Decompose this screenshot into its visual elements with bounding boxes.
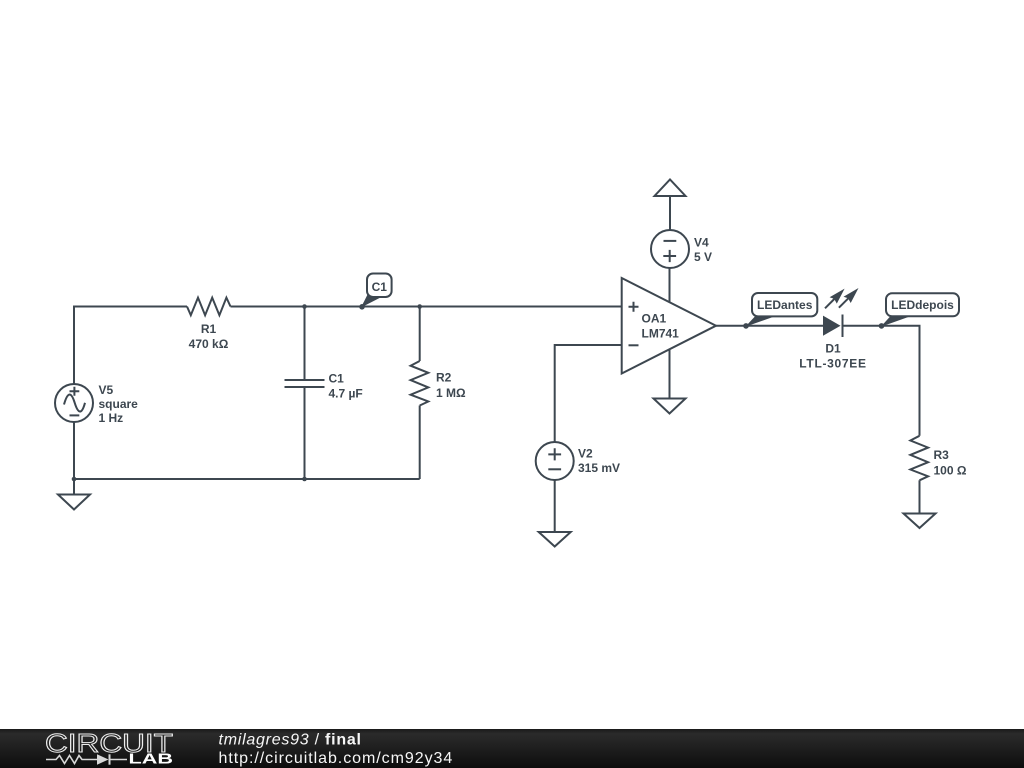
net flag C1 box (367, 274, 392, 298)
capacitor C1 top lead (304, 307, 306, 380)
net flag LEDdepois node dot (879, 323, 885, 329)
svg-text:square: square (99, 397, 139, 411)
svg-text:LEDantes: LEDantes (757, 298, 813, 312)
wire V5 bottom (73, 422, 75, 479)
LED D1 triangle (823, 316, 841, 336)
ground below V2 (539, 532, 571, 547)
wire V5 top to R1 (74, 307, 187, 385)
capacitor C1 bottom lead (304, 388, 306, 479)
resistor R3 (910, 436, 928, 481)
svg-text:315 mV: 315 mV (578, 461, 620, 475)
node junction dot R2 top (417, 304, 422, 309)
svg-text:470 kΩ: 470 kΩ (189, 337, 229, 351)
LED light arrow 2 (839, 298, 849, 308)
resistor R2 top lead (419, 307, 421, 362)
svg-text:LAB: LAB (129, 751, 174, 768)
voltage source V4 (651, 230, 689, 268)
ground below V5 (73, 479, 75, 495)
svg-text:http://circuitlab.com/cm92y34: http://circuitlab.com/cm92y34 (219, 750, 454, 767)
op-amp - input marker (629, 344, 639, 346)
wire R1 to op-amp + input (231, 306, 622, 308)
svg-text:LTL-307EE: LTL-307EE (799, 357, 866, 371)
capacitor C1 plates (285, 380, 325, 387)
voltage source V5 (55, 384, 93, 422)
svg-text:1 Hz: 1 Hz (99, 411, 124, 425)
resistor R2 bottom lead (419, 406, 421, 480)
footer logo resistor-diode glyph (46, 756, 127, 764)
V4 power stem into op-amp (669, 268, 671, 303)
net flag LEDdepois tail (881, 315, 909, 327)
net flag C1 tail (361, 294, 380, 308)
svg-text:tmilagres93 / final: tmilagres93 / final (219, 732, 362, 749)
voltage source V2 (536, 442, 574, 480)
svg-text:5 V: 5 V (694, 250, 712, 264)
svg-text:V5: V5 (99, 383, 114, 397)
net flag LEDantes box (752, 293, 817, 316)
resistor R1 (187, 298, 231, 316)
ground below op-amp (654, 399, 686, 414)
net flag C1 node dot (359, 304, 365, 310)
wire LED cathode to R3 (843, 326, 920, 436)
net flag LEDdepois box (886, 293, 959, 316)
power flag arrow above V4 (655, 180, 686, 197)
svg-text:C1: C1 (329, 372, 345, 386)
wire - input to V2 (555, 345, 622, 442)
resistor R2 (411, 361, 429, 406)
node junction dot V5 bottom (72, 477, 77, 482)
wire V2 to ground (554, 480, 556, 532)
svg-text:100 Ω: 100 Ω (934, 464, 967, 478)
svg-text:V4: V4 (694, 236, 709, 250)
svg-text:R3: R3 (934, 448, 950, 462)
svg-text:OA1: OA1 (642, 312, 667, 326)
net flag LEDantes node dot (743, 323, 749, 329)
ground below R3 (904, 514, 936, 529)
svg-text:D1: D1 (825, 342, 841, 356)
node junction dot R1-C1 (302, 304, 307, 309)
LED D1 cathode bar (842, 315, 844, 338)
svg-text:C1: C1 (372, 280, 388, 294)
svg-text:R1: R1 (201, 322, 217, 336)
svg-text:V2: V2 (578, 447, 593, 461)
svg-text:LM741: LM741 (642, 327, 680, 341)
wire bottom rail (74, 478, 420, 480)
svg-text:4.7 µF: 4.7 µF (329, 387, 363, 401)
wire R3 to ground (919, 480, 921, 513)
op-amp V- stem (669, 349, 671, 399)
LED light arrow 1 (825, 299, 835, 309)
svg-text:LEDdepois: LEDdepois (891, 298, 954, 312)
net flag LEDantes tail (745, 315, 774, 327)
svg-text:R2: R2 (436, 371, 452, 385)
op-amp U1 body (622, 278, 716, 374)
wire op-amp output to LED (716, 325, 823, 327)
wire arrow to V4 (669, 196, 671, 230)
op-amp + input marker (629, 302, 639, 312)
node junction dot C1 bottom (302, 477, 307, 482)
svg-text:1 MΩ: 1 MΩ (436, 386, 466, 400)
footer bar (0, 729, 1024, 768)
